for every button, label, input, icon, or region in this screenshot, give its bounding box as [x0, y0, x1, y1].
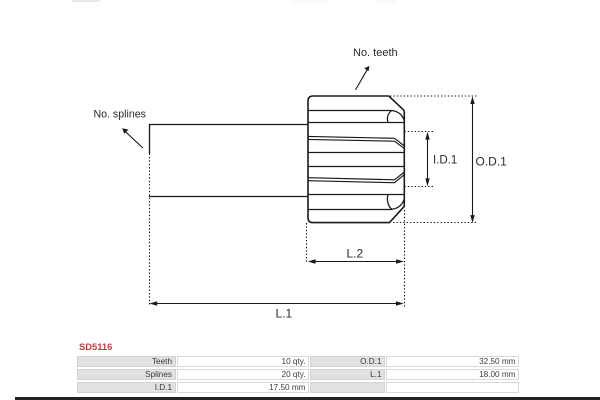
L.2 extension line (left, dotted)	[306, 223, 308, 264]
svg-text:I.D.1: I.D.1	[433, 155, 457, 167]
svg-text:No. teeth: No. teeth	[353, 47, 398, 59]
gear face line (upper)	[308, 122, 404, 124]
L.2 / L.1 extension line (right, dotted)	[404, 210, 406, 308]
I.D.1 extension line (bottom, dotted)	[404, 186, 434, 188]
gear body outline	[308, 96, 404, 223]
gear tooth ear (bottom right)	[387, 195, 392, 210]
svg-text:L.2: L.2	[347, 247, 364, 261]
spline groove upper pair	[308, 136, 404, 146]
leader arrow: No. splines	[125, 132, 143, 148]
I.D.1 dimension line	[427, 134, 429, 184]
gear tooth ear (top right)	[392, 111, 404, 121]
I.D.1 extension line (top, dotted)	[404, 131, 434, 133]
L.1 dimension line	[152, 303, 402, 305]
gear tooth line (upper root)	[308, 110, 392, 112]
svg-text:L.1: L.1	[276, 307, 293, 321]
shaft left face (solid part)	[149, 124, 151, 154]
O.D.1 dimension line	[472, 99, 474, 221]
shaft left face extension (dotted, runs to L.1 dimension)	[149, 154, 151, 306]
svg-text:No. splines: No. splines	[94, 108, 146, 120]
L.2 dimension line	[310, 261, 402, 263]
leader arrow: No. teeth	[356, 70, 368, 90]
gear mid line A	[308, 152, 404, 154]
O.D.1 extension line (bottom, dotted)	[393, 222, 477, 224]
part number SD5116	[79, 341, 112, 352]
spec table	[77, 356, 176, 367]
gear mid line B	[308, 166, 404, 168]
shaft (spline barrel) top edge	[149, 124, 308, 126]
bottom black bar	[15, 397, 600, 400]
faint top watermark smudges	[72, 0, 100, 2]
shaft bottom edge	[149, 196, 308, 198]
spline groove lower pair	[308, 172, 404, 180]
gear face line (lower)	[308, 194, 404, 196]
gear tooth line (lower root)	[308, 209, 392, 211]
O.D.1 extension line (top, dotted)	[390, 95, 477, 97]
svg-text:O.D.1: O.D.1	[476, 155, 508, 169]
